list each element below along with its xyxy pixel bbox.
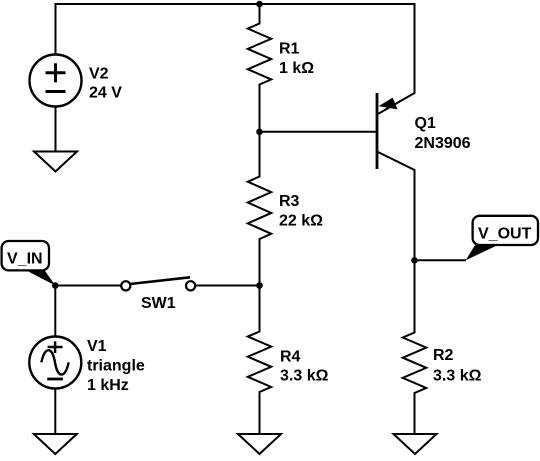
- Q1 collector diagonal and wire down: [377, 152, 415, 261]
- ground below R2: [394, 434, 437, 454]
- node V_OUT junction dot: [411, 257, 418, 264]
- ground below R4: [238, 434, 281, 454]
- wire V1 bottom lead: [54, 388, 56, 435]
- wire to V_OUT flag: [415, 259, 467, 261]
- svg-text:2N3906: 2N3906: [415, 135, 471, 152]
- transistor Q1 base bar: [376, 93, 379, 169]
- svg-text:R4: R4: [280, 349, 301, 366]
- ground below V2: [34, 152, 77, 172]
- V2 minus sign: [46, 90, 66, 93]
- svg-text:Q1: Q1: [415, 115, 436, 132]
- node junction dot top rail: [256, 1, 263, 8]
- resistor R1: [248, 3, 272, 132]
- svg-text:V1: V1: [87, 338, 107, 355]
- wire V2 top lead: [55, 3, 57, 55]
- switch SW1 lever: [130, 277, 190, 284]
- node label V_IN: [2, 241, 49, 270]
- node label V_OUT: [473, 216, 538, 245]
- svg-text:triangle: triangle: [87, 358, 145, 375]
- svg-text:V2: V2: [89, 66, 109, 83]
- wire V_IN to switch: [55, 285, 121, 287]
- V1 minus sign: [47, 378, 63, 381]
- V_OUT flag pointer wedge: [466, 245, 498, 260]
- svg-text:24 V: 24 V: [89, 85, 122, 102]
- svg-text:R3: R3: [279, 193, 300, 210]
- voltage source V2 circle: [30, 55, 82, 107]
- svg-text:1 kΩ: 1 kΩ: [279, 60, 314, 77]
- V1 waveform symbol: [41, 350, 68, 374]
- svg-text:22 kΩ: 22 kΩ: [279, 213, 323, 230]
- wire V2 bottom lead: [55, 107, 57, 152]
- svg-text:R1: R1: [279, 41, 300, 58]
- svg-text:1 kHz: 1 kHz: [87, 377, 129, 394]
- Q1 emitter diagonal and wire up: [377, 3, 415, 115]
- node middle junction dot: [256, 282, 263, 289]
- ground below V1: [34, 434, 77, 454]
- Q1 emitter arrow (PNP): [379, 98, 398, 110]
- resistor R3: [248, 132, 272, 286]
- wire switch to middle node: [195, 285, 259, 287]
- resistor R2: [403, 260, 427, 434]
- V_IN flag pointer wedge: [25, 270, 56, 286]
- voltage source V1 circle: [29, 337, 81, 389]
- svg-text:V_OUT: V_OUT: [478, 226, 532, 243]
- svg-text:V_IN: V_IN: [7, 251, 43, 268]
- wire V_IN down to V1: [54, 286, 56, 338]
- node base junction dot: [256, 129, 263, 136]
- svg-text:3.3 kΩ: 3.3 kΩ: [280, 368, 329, 385]
- resistor R4: [248, 286, 272, 435]
- switch SW1 right post: [186, 281, 195, 290]
- wire base to Q1: [260, 131, 378, 133]
- switch SW1 left post: [121, 281, 130, 290]
- node V_IN junction dot: [52, 282, 59, 289]
- V2 plus sign: [46, 63, 66, 82]
- V1 plus sign: [48, 341, 63, 353]
- wire top rail: [56, 3, 415, 5]
- svg-text:3.3 kΩ: 3.3 kΩ: [433, 368, 482, 385]
- svg-text:SW1: SW1: [141, 295, 176, 312]
- svg-text:R2: R2: [433, 347, 454, 364]
